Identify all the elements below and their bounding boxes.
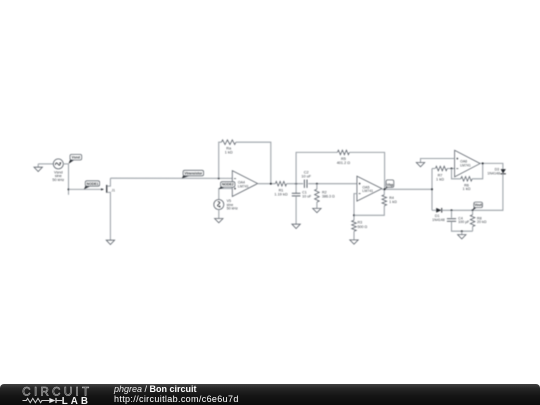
wire feedback down from inverting node <box>452 169 461 179</box>
svg-text:LM741: LM741 <box>362 189 373 193</box>
node label Vsnd <box>69 154 82 164</box>
capacitor C2 10 uF <box>301 170 311 188</box>
svg-text:Vbp: Vbp <box>387 183 393 187</box>
op-amp OA4 LM741 <box>232 171 257 197</box>
svg-text:10 uF: 10 uF <box>302 194 312 198</box>
node label Vout <box>473 202 483 210</box>
wire C2 to OA5 non-inverting input <box>308 183 357 185</box>
svg-text:20 kΩ: 20 kΩ <box>477 220 487 224</box>
node label NODE1 <box>84 181 100 189</box>
node label Vbp <box>385 180 394 189</box>
wire C4 branch <box>451 210 453 218</box>
wire V5 to ground <box>218 210 220 219</box>
op-amp OA6 LM741 <box>455 150 481 177</box>
wire R1 to C2 (node A) <box>287 183 304 185</box>
wire R2 to ground <box>316 202 318 208</box>
wire OA4 non-inverting input to V5 <box>219 189 233 200</box>
wire R7 to OA6 inverting input <box>449 168 454 170</box>
wire stage 4 input tee <box>431 169 433 211</box>
wire Vout row left part <box>432 209 436 211</box>
wire R4 top to OA5 output <box>383 189 385 195</box>
svg-text:NODE1: NODE1 <box>87 182 99 186</box>
wire OA4 output <box>258 183 276 185</box>
resistor R6 1 kOhm <box>461 177 472 192</box>
resistor R1 1.19 kOhm <box>274 181 287 196</box>
voltage source V1 Vsnd sine 50 kHz <box>52 159 64 182</box>
node label Vtransistor <box>182 170 204 178</box>
resistor R4 1 kOhm <box>382 195 397 206</box>
svg-text:1N4148: 1N4148 <box>487 171 500 175</box>
wire Vsnd down to NODE1 junction <box>68 164 70 195</box>
resistor R2 386.3 Ohm <box>315 184 335 202</box>
svg-text:Vout: Vout <box>475 203 483 207</box>
svg-text:500 Ω: 500 Ω <box>358 225 368 229</box>
resistor R5 401.2 Ohm <box>337 150 351 165</box>
wire R5 to OA5 output junction <box>349 152 384 189</box>
wire node A up to R5 <box>296 152 337 183</box>
svg-text:50 kHz: 50 kHz <box>227 207 238 211</box>
svg-text:401.2 Ω: 401.2 Ω <box>337 161 351 165</box>
ground (C4/R8) <box>458 235 466 239</box>
svg-text:Vsnd: Vsnd <box>72 156 80 160</box>
svg-text:LM741: LM741 <box>238 185 249 189</box>
svg-text:1 kΩ: 1 kΩ <box>463 187 471 191</box>
wire to R7 <box>432 168 435 170</box>
diode D1 1N4148 <box>432 208 445 222</box>
wire OA6 non-inverting input to ground <box>421 159 455 163</box>
wire ground stub <box>461 231 463 234</box>
svg-text:386.3 Ω: 386.3 Ω <box>322 194 335 198</box>
svg-text:1.19 kΩ: 1.19 kΩ <box>274 193 287 197</box>
svg-text:1 kΩ: 1 kΩ <box>225 150 233 154</box>
wire R3 to ground <box>353 231 355 240</box>
svg-text:LAB: LAB <box>62 396 91 405</box>
voltage source V5 sine 50 kHz <box>214 199 238 210</box>
CircuitLab logo <box>22 385 97 405</box>
svg-text:10 uF: 10 uF <box>301 174 311 178</box>
capacitor C4 100 uF <box>447 216 470 224</box>
node label NODE2 <box>219 182 235 190</box>
svg-text:100 µF: 100 µF <box>458 220 470 224</box>
wire NODE1 junction to J1 gate <box>69 188 104 190</box>
diode D3 1N4148 <box>487 168 505 176</box>
svg-text:1 kΩ: 1 kΩ <box>436 178 444 182</box>
wire Ra left rail <box>219 142 222 178</box>
svg-text:1N4148: 1N4148 <box>432 218 445 222</box>
wire J1 drain to OA4 inverting input (node Vtransistor) <box>110 177 232 179</box>
wire R6 to OA6 output <box>472 163 483 178</box>
resistor R3 500 Ohm <box>352 220 368 231</box>
resistor R8 20 kOhm <box>470 210 486 226</box>
capacitor C1 10 uF <box>292 190 312 198</box>
ground (left of V1) <box>34 164 42 172</box>
op-amp OA5 LM741 <box>357 176 382 201</box>
wire C1 to ground <box>295 196 297 224</box>
transistor J1 (N-JFET) <box>101 178 115 240</box>
wire ground to V1 <box>38 163 53 165</box>
ground (OA6 +) <box>416 163 424 167</box>
resistor Ra 1 kOhm <box>221 140 236 154</box>
svg-text:J1: J1 <box>111 188 115 192</box>
wire C4 bottom to ground row <box>452 221 473 232</box>
wire V1 to node Vsnd <box>63 163 68 165</box>
wire D1 to Vout node <box>442 209 474 211</box>
wire R8 bottom <box>472 227 474 232</box>
wire OA5 output to stage 4 <box>382 188 432 190</box>
ground (J1 source) <box>106 240 114 244</box>
svg-text:1 kΩ: 1 kΩ <box>389 200 397 204</box>
ground (V5) <box>215 219 223 223</box>
wire D3 down to Vout row <box>474 174 503 211</box>
wire feedback node to R4 <box>354 206 384 216</box>
resistor R7 1 kOhm <box>435 166 449 181</box>
wire OA6 output to D3 <box>480 162 503 169</box>
ground (C1) <box>292 224 300 228</box>
ground (R3) <box>350 240 358 244</box>
svg-text:LM741: LM741 <box>460 164 471 168</box>
svg-text:Vtransistor: Vtransistor <box>184 171 203 175</box>
wire Ra right to OA4 output junction <box>236 142 271 184</box>
wire OA5 inverting input down to feedback node <box>353 194 357 221</box>
svg-text:NODE2: NODE2 <box>222 183 234 187</box>
wire node A down to C1 <box>295 184 297 194</box>
ground (R2) <box>313 208 321 212</box>
svg-text:50 kHz: 50 kHz <box>52 178 64 182</box>
